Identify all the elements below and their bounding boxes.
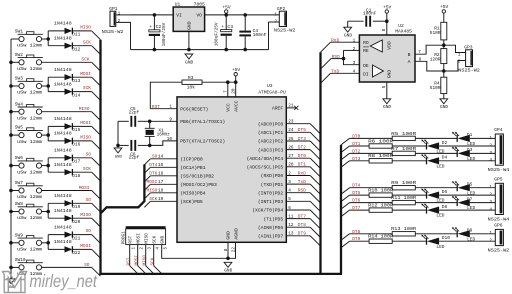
svg-text:RSD: RSD (332, 54, 340, 60)
svg-text:VDD: VDD (386, 41, 392, 50)
svg-text:DT7: DT7 (298, 213, 306, 219)
svg-text:SCK: SCK (83, 166, 91, 172)
svg-text:MISO: MISO (79, 106, 90, 112)
svg-text:uSw 12mm: uSw 12mm (17, 139, 42, 145)
svg-text:TxD: TxD (331, 69, 339, 75)
svg-text:SW9: SW9 (15, 232, 23, 238)
bus right vertical 1 (319, 52, 321, 274)
svg-text:MAX485: MAX485 (395, 29, 412, 35)
svg-text:4: 4 (353, 70, 356, 75)
wire pin 6 A (415, 61, 444, 71)
svg-text:R7 100R: R7 100R (391, 146, 416, 152)
svg-text:DT9: DT9 (298, 231, 306, 237)
svg-text:(SS/OC1B)PB2: (SS/OC1B)PB2 (180, 174, 214, 180)
svg-text:SW8: SW8 (15, 201, 23, 207)
svg-text:100uF/25V: 100uF/25V (215, 22, 220, 46)
watermark mirley_net logo (3, 272, 27, 293)
LED D8 (426, 207, 428, 214)
svg-text:PB7(XTAL2/TOSC2): PB7(XTAL2/TOSC2) (180, 139, 225, 145)
svg-text:U1: U1 (175, 2, 181, 8)
resistor R6 100R (369, 144, 392, 148)
capacitor C6 (118, 144, 129, 146)
svg-text:GP2: GP2 (277, 6, 286, 12)
wire VCC pin 7 (227, 82, 229, 97)
resistor R8 100R (369, 159, 392, 163)
svg-text:SW2: SW2 (15, 52, 23, 58)
svg-text:D11: D11 (72, 32, 80, 38)
diode D17 1N4148 net SO (65, 155, 73, 161)
svg-text:R11 100R: R11 100R (391, 195, 416, 201)
wire GND pin 8 (227, 242, 229, 258)
svg-text:RxD: RxD (331, 38, 339, 44)
connector GP2 (269, 21, 280, 23)
connector GP1 (116, 14, 131, 16)
svg-text:D6: D6 (442, 189, 448, 195)
svg-text:+: + (221, 25, 224, 30)
svg-text:D10: D10 (442, 235, 450, 241)
svg-text:2: 2 (274, 19, 277, 24)
wire +5V rail (205, 14, 280, 16)
ground (7, 279, 15, 284)
svg-text:5: 5 (382, 85, 387, 88)
svg-text:+: + (149, 25, 152, 30)
svg-text:NS25-W2: NS25-W2 (458, 68, 480, 74)
net DT2 wire (341, 153, 350, 160)
svg-text:1: 1 (169, 105, 172, 110)
resistor R12 100R (369, 208, 392, 212)
svg-text:8: 8 (224, 248, 229, 251)
svg-text:D14: D14 (72, 92, 80, 98)
wire PROG1 pin 5 to GND (162, 245, 228, 259)
svg-text:2: 2 (489, 193, 492, 198)
ground (185, 54, 193, 59)
net DT4 wire (341, 188, 350, 195)
svg-text:1N4148: 1N4148 (54, 131, 72, 137)
svg-text:MISO: MISO (145, 233, 150, 244)
wire PROG1 pin 2 net MOSI (137, 245, 139, 266)
net DT7 wire (341, 210, 350, 217)
resistor R7 100R (392, 151, 415, 155)
svg-text:NS25-W2: NS25-W2 (488, 247, 510, 253)
resistor R2 120R (443, 45, 445, 48)
svg-text:7: 7 (224, 90, 229, 93)
capacitor C2 (153, 15, 155, 30)
capacitor C3 (225, 15, 227, 30)
svg-text:DE: DE (363, 63, 369, 69)
svg-text:ATMEGA8-PU: ATMEGA8-PU (258, 89, 286, 95)
svg-text:(ICP)PB0: (ICP)PB0 (180, 157, 203, 163)
resistor R11 100R (392, 200, 415, 204)
svg-text:D17: D17 (72, 159, 80, 165)
wire net SCK from SW2 (42, 61, 92, 63)
LED D10 (426, 238, 428, 245)
svg-text:VCC: VCC (225, 103, 231, 112)
wire crystal to pin 10 (150, 141, 177, 146)
voltage regulator U1 7805 (173, 7, 204, 31)
svg-text:VI: VI (176, 13, 182, 19)
svg-text:1N4148: 1N4148 (54, 148, 72, 154)
LED D1 (456, 135, 458, 142)
svg-text:1: 1 (489, 185, 492, 190)
svg-text:4: 4 (489, 208, 492, 213)
svg-text:uSw 12mm: uSw 12mm (17, 66, 42, 72)
wire GND pin 5 (386, 82, 388, 99)
svg-text:AVCC: AVCC (233, 100, 239, 111)
svg-text:3: 3 (353, 61, 356, 66)
svg-text:RSD: RSD (298, 188, 306, 194)
svg-text:(ADC0)PC0: (ADC0)PC0 (258, 121, 284, 127)
svg-text:1: 1 (489, 136, 492, 141)
svg-text:1: 1 (118, 12, 121, 17)
svg-text:D22: D22 (72, 250, 80, 256)
svg-text:(RXD)PD0: (RXD)PD0 (261, 173, 284, 179)
svg-text:DT4: DT4 (149, 162, 157, 168)
svg-text:2: 2 (489, 143, 492, 148)
bus left vertical (99, 40, 101, 275)
diode D13 1N4148 net MOSI (65, 74, 73, 80)
wire net MOSI from SW7 (42, 190, 92, 192)
bus right vertical 2 (340, 145, 342, 274)
svg-text:C2: C2 (156, 24, 162, 30)
diode D15 1N4148 net MOSI (65, 123, 73, 129)
diode D21 1N4148 net SO (65, 232, 73, 238)
svg-text:3: 3 (489, 200, 492, 205)
wire VDD pin 8 (386, 21, 388, 35)
connector GP6 (495, 229, 503, 245)
svg-text:DT2: DT2 (298, 144, 306, 150)
diode D16 1N4148 net MISO (65, 138, 73, 144)
svg-text:3: 3 (489, 151, 492, 156)
bus bottom horizontal (99, 273, 342, 275)
ground (383, 99, 391, 104)
wire pin 7 B (415, 45, 444, 54)
wire PROG1 pin 4 net SCK (153, 245, 155, 266)
connector GP3 (444, 45, 466, 52)
svg-text:1N4148: 1N4148 (54, 81, 72, 87)
wire PROG1 pin 3 net MISO (145, 245, 147, 266)
svg-text:22: 22 (231, 247, 236, 253)
wire VIN rail (131, 14, 174, 16)
svg-text:SW10: SW10 (15, 257, 26, 263)
resistor R4 510R (443, 71, 445, 77)
svg-text:NS25-W4: NS25-W4 (488, 167, 510, 173)
svg-text:D2: D2 (442, 140, 448, 146)
svg-text:MISO: MISO (142, 255, 147, 266)
svg-text:MISO: MISO (80, 135, 91, 141)
bus branch to MCU port B pins (101, 164, 145, 213)
svg-text:1N4148: 1N4148 (54, 162, 72, 168)
wire net SO from SW10 (42, 266, 92, 268)
svg-text:R14 100R: R14 100R (368, 234, 393, 240)
svg-text:C3: C3 (227, 24, 233, 30)
resistor R1 510R (443, 13, 445, 22)
svg-text:MOSI: MOSI (80, 120, 91, 126)
svg-text:22pf: 22pf (129, 156, 140, 161)
svg-text:7805: 7805 (194, 2, 205, 8)
svg-text:7: 7 (418, 50, 421, 55)
svg-text:SW4: SW4 (15, 101, 23, 107)
svg-text:MISO: MISO (146, 188, 157, 194)
svg-text:(INT0)PD2: (INT0)PD2 (258, 190, 284, 196)
svg-text:R13 100R: R13 100R (391, 226, 416, 232)
svg-text:(ADC4/SDA)PC4: (ADC4/SDA)PC4 (247, 156, 284, 162)
svg-text:D19: D19 (72, 204, 80, 210)
svg-text:(OC1A)PB1: (OC1A)PB1 (180, 165, 206, 171)
svg-text:MOSI: MOSI (137, 233, 142, 244)
svg-text:RO: RO (363, 40, 369, 46)
svg-text:SCK: SCK (81, 57, 89, 63)
svg-text:1N4148: 1N4148 (54, 21, 72, 27)
svg-text:2: 2 (489, 239, 492, 244)
LED D6 (426, 192, 428, 199)
svg-text:DT0: DT0 (298, 153, 306, 159)
svg-text:uSw 12mm: uSw 12mm (17, 215, 42, 221)
svg-text:GP4: GP4 (494, 127, 503, 133)
svg-text:D4: D4 (442, 155, 448, 161)
svg-text:PC6(RESET): PC6(RESET) (180, 106, 208, 112)
svg-text:510R: 510R (430, 85, 441, 91)
svg-text:R8 100R: R8 100R (368, 153, 393, 159)
svg-text:GP1: GP1 (109, 6, 118, 12)
svg-text:10: 10 (167, 137, 173, 142)
svg-text:LED: LED (436, 213, 444, 219)
svg-text:R12 100R: R12 100R (368, 203, 393, 209)
svg-text:510R: 510R (430, 30, 441, 36)
svg-text:RST: RST (129, 235, 134, 243)
svg-text:8: 8 (382, 28, 387, 31)
svg-text:SCK: SCK (150, 257, 155, 265)
microcontroller U3 ATMEGA8-PU (177, 97, 286, 242)
wire PROG1 pin 1 net RST (129, 245, 131, 266)
svg-text:MOSI: MOSI (134, 255, 139, 266)
svg-text:20: 20 (232, 88, 237, 94)
svg-text:MISO: MISO (80, 212, 91, 218)
net RxD pin 1 (331, 41, 360, 43)
svg-text:B: B (408, 52, 411, 58)
svg-text:SCK: SCK (153, 235, 158, 243)
svg-text:DT8: DT8 (298, 222, 306, 228)
svg-text:100uF/25V: 100uF/25V (162, 22, 167, 46)
svg-text:(AIN1)PD7: (AIN1)PD7 (258, 234, 284, 240)
svg-text:GND: GND (440, 104, 448, 110)
connector GP4 (495, 134, 503, 165)
svg-text:D9: D9 (467, 228, 473, 234)
capacitor C1 (348, 20, 364, 22)
svg-text:RST: RST (126, 257, 131, 265)
LED D2 (426, 143, 428, 150)
svg-text:VO: VO (196, 13, 202, 19)
svg-text:GND: GND (115, 155, 123, 159)
svg-text:PROG1: PROG1 (121, 231, 126, 245)
svg-text:(ADC5/SCL)PC5: (ADC5/SCL)PC5 (247, 165, 284, 171)
svg-text:GND: GND (344, 33, 352, 39)
svg-text:uSw 12mm: uSw 12mm (17, 194, 42, 200)
svg-text:R3: R3 (188, 75, 194, 81)
svg-text:A: A (408, 59, 411, 65)
svg-text:SW1: SW1 (15, 29, 23, 35)
driver buffer (373, 65, 384, 77)
svg-text:1: 1 (458, 52, 461, 57)
svg-text:MOSI: MOSI (79, 185, 90, 191)
capacitor C5 (118, 120, 129, 122)
LED D4 (426, 157, 428, 164)
svg-text:4: 4 (489, 158, 492, 163)
svg-text:SO: SO (86, 228, 92, 234)
svg-text:NS25-W2: NS25-W2 (102, 29, 124, 35)
wire (117, 121, 119, 145)
connector GP5 (495, 183, 503, 214)
svg-text:U3: U3 (267, 83, 273, 89)
svg-text:SCK: SCK (149, 196, 157, 202)
svg-text:uSw 12mm: uSw 12mm (17, 43, 42, 49)
svg-text:DT3: DT3 (298, 136, 306, 142)
svg-text:TxD: TxD (298, 179, 306, 185)
svg-text:R6 100R: R6 100R (368, 138, 393, 144)
svg-text:GND: GND (226, 231, 232, 240)
LED D3 (456, 150, 458, 157)
ground (440, 99, 448, 104)
svg-text:D5: D5 (467, 182, 473, 188)
svg-text:DI: DI (363, 72, 369, 78)
resistor R10 100R (369, 193, 392, 197)
wire +5V to VCC/AVCC (202, 81, 236, 83)
svg-text:uSw 12mm: uSw 12mm (17, 90, 42, 96)
svg-text:(TXD)PD1: (TXD)PD1 (261, 182, 284, 188)
svg-text:D21: D21 (72, 235, 80, 241)
svg-text:mirley_net: mirley_net (30, 271, 98, 291)
svg-text:9: 9 (169, 117, 172, 122)
svg-text:GP5: GP5 (494, 177, 503, 183)
wire (47, 126, 49, 140)
svg-text:(MISO)PB4: (MISO)PB4 (180, 191, 206, 197)
svg-text:GND: GND (185, 59, 193, 65)
net DT1 wire (341, 146, 350, 153)
svg-text:100nF: 100nF (363, 11, 377, 17)
wire (47, 235, 49, 250)
capacitor C4 (244, 15, 246, 31)
diode D11 1N4148 net MISO (65, 28, 73, 34)
svg-text:120R: 120R (430, 57, 441, 63)
svg-text:SO: SO (86, 197, 92, 203)
svg-text:AGND: AGND (234, 228, 240, 239)
wire net MISO from SW4 (42, 111, 92, 113)
ic U2 MAX485 (359, 35, 415, 82)
svg-text:AREF: AREF (272, 106, 283, 112)
svg-text:(MOSI/OC2)PB3: (MOSI/OC2)PB3 (180, 182, 217, 188)
svg-text:(INT1)PD3: (INT1)PD3 (258, 199, 284, 205)
svg-text:1N4148: 1N4148 (54, 208, 72, 214)
svg-text:R10 100R: R10 100R (368, 188, 393, 194)
wire (47, 77, 49, 91)
svg-text:2: 2 (118, 19, 121, 24)
svg-text:PB6(XTAL1/TOSC1): PB6(XTAL1/TOSC1) (180, 119, 225, 125)
svg-text:22pf: 22pf (129, 110, 140, 115)
svg-text:SO: SO (86, 151, 92, 157)
svg-text:D15: D15 (72, 127, 80, 133)
svg-text:MOSI: MOSI (80, 243, 91, 249)
svg-text:uSw 12mm: uSw 12mm (17, 247, 42, 253)
ground (224, 262, 232, 267)
svg-text:2: 2 (458, 60, 461, 65)
svg-text:(ADC3)PC3: (ADC3)PC3 (258, 147, 284, 153)
svg-text:MOSI: MOSI (146, 179, 157, 185)
svg-text:1N4148: 1N4148 (54, 116, 72, 122)
ground (114, 148, 122, 153)
svg-text:D7: D7 (467, 196, 473, 202)
svg-text:1: 1 (353, 39, 356, 44)
svg-text:GND: GND (161, 235, 166, 243)
LED D9 (456, 230, 458, 237)
svg-text:SW6: SW6 (15, 155, 23, 161)
wire (47, 203, 49, 218)
resistor R14 100R (369, 239, 392, 243)
ground (347, 21, 349, 27)
svg-text:R9 100R: R9 100R (391, 180, 416, 186)
svg-text:1: 1 (274, 12, 277, 17)
net TxD pin 4 (331, 72, 360, 74)
net DT0 wire (341, 138, 350, 145)
svg-text:D1: D1 (467, 132, 473, 138)
net DT9 wire (341, 241, 350, 248)
svg-text:SO: SO (152, 154, 158, 160)
svg-text:R5 100R: R5 100R (391, 131, 416, 137)
svg-text:SO: SO (84, 262, 90, 268)
svg-text:2: 2 (353, 47, 356, 52)
svg-text:SW5: SW5 (15, 125, 23, 131)
wire AVCC pin 20 (235, 82, 237, 97)
wire left ground rail (10, 39, 12, 279)
wire (47, 158, 49, 172)
svg-text:GP6: GP6 (494, 223, 503, 229)
svg-text:(AIN0)PD6: (AIN0)PD6 (258, 225, 284, 231)
svg-text:SCK: SCK (83, 39, 91, 45)
svg-text:GND: GND (224, 268, 232, 274)
svg-text:1N4148: 1N4148 (54, 239, 72, 245)
connector PROG1 (126, 226, 166, 229)
wire ground rail (131, 49, 269, 51)
svg-text:GND: GND (187, 21, 193, 30)
net DT8 wire (341, 234, 350, 241)
svg-text:SW3: SW3 (15, 76, 23, 82)
svg-text:D20: D20 (72, 219, 80, 225)
svg-text:(T1)PD5: (T1)PD5 (263, 216, 283, 222)
resistor R9 100R (392, 186, 415, 190)
svg-text:D16: D16 (72, 142, 80, 148)
svg-text:uSw 12mm: uSw 12mm (17, 115, 42, 121)
svg-text:LED: LED (436, 244, 444, 250)
diode D20 1N4148 net MISO (65, 215, 73, 221)
svg-text:LED: LED (436, 163, 444, 169)
net DT5 wire (341, 195, 350, 202)
svg-text:100nF: 100nF (253, 32, 267, 38)
LED D7 (456, 199, 458, 206)
svg-text:D13: D13 (72, 78, 80, 84)
svg-text:1N4148: 1N4148 (54, 193, 72, 199)
net DT6 wire (341, 203, 350, 210)
svg-text:(ADC1)PC1: (ADC1)PC1 (258, 130, 284, 136)
svg-text:D12: D12 (72, 47, 80, 53)
svg-text:U2: U2 (398, 23, 404, 29)
svg-text:SCK: SCK (83, 85, 91, 91)
resistor R13 100R (392, 232, 415, 236)
wire GP1 pin2 to ground rail (116, 22, 131, 49)
svg-text:RE: RE (363, 48, 369, 54)
svg-text:NS25-W4: NS25-W4 (488, 216, 510, 222)
resistor R5 100R (392, 136, 415, 140)
svg-text:D3: D3 (467, 147, 473, 153)
svg-text:1: 1 (489, 231, 492, 236)
svg-text:6: 6 (419, 58, 422, 63)
